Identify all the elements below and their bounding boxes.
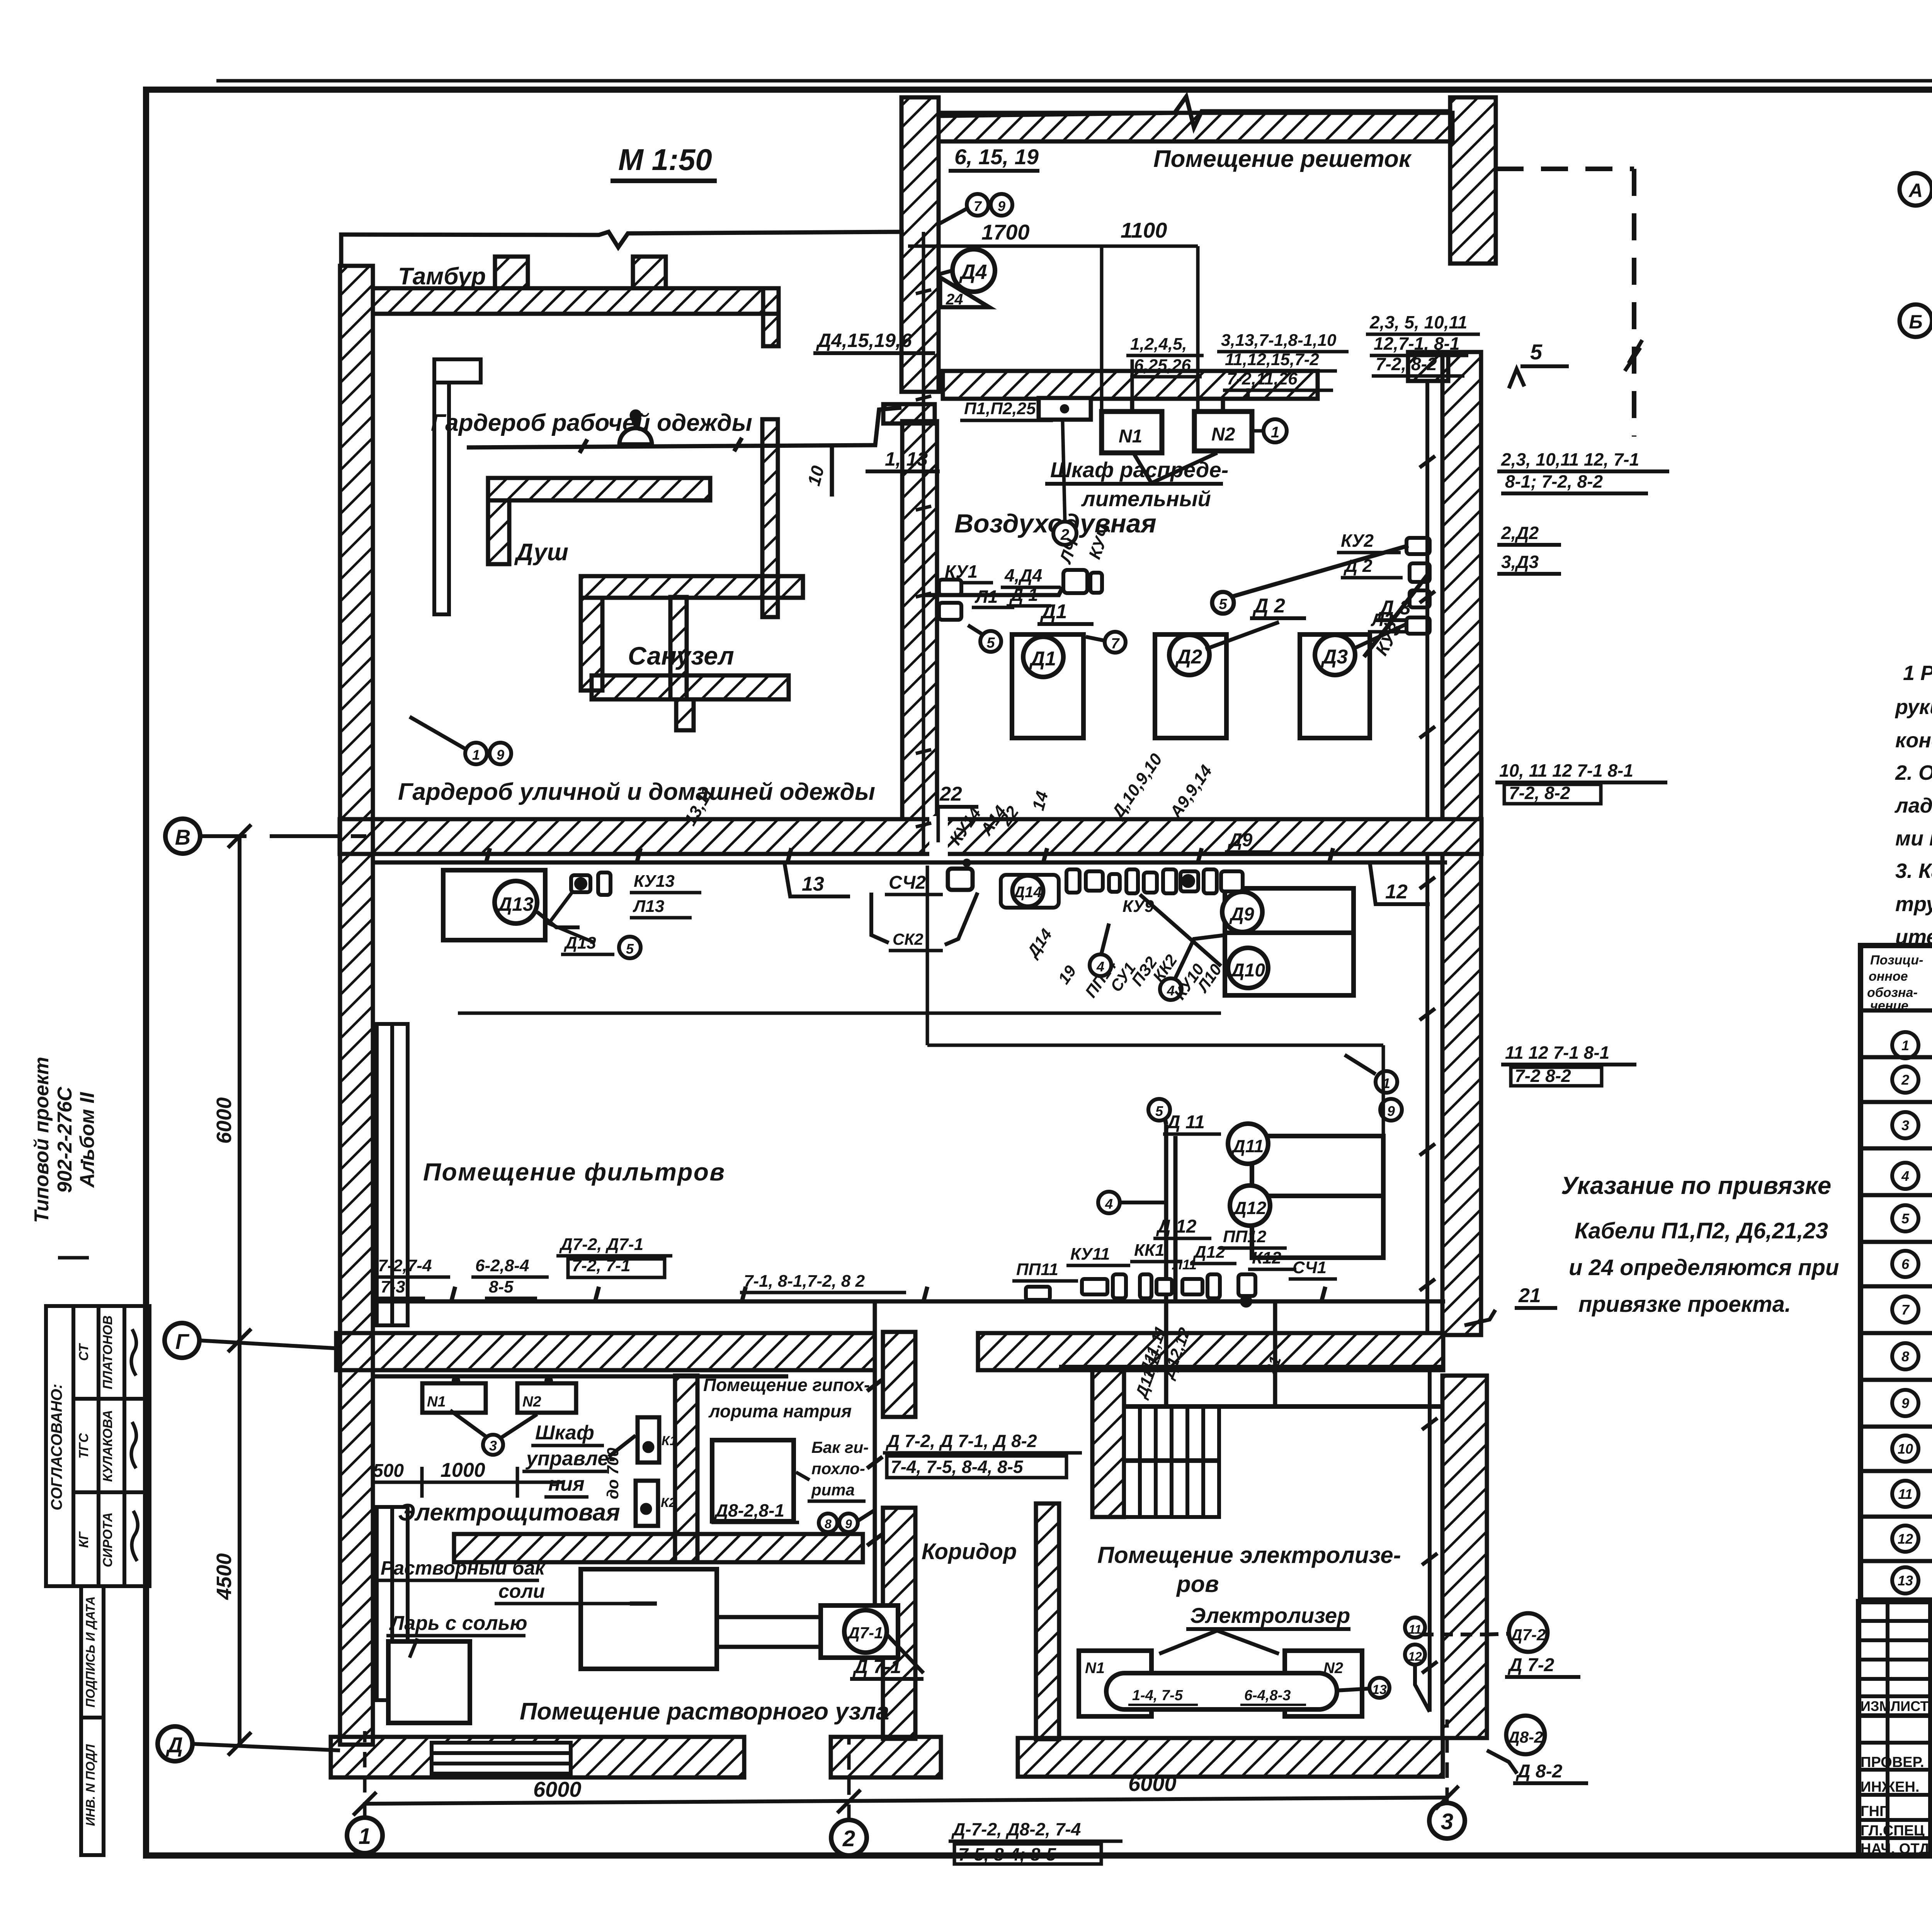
svg-text:12: 12 [1385,881,1408,903]
wall: left outer wall [340,266,373,1745]
title header row izm list [1861,1698,1932,1714]
svg-text:6-2,8-4: 6-2,8-4 [475,1256,529,1275]
sp axis circle A [1900,173,1932,206]
svg-text:1: 1 [1271,424,1279,441]
distribution cabinet N1 [1102,412,1162,453]
svg-text:8: 8 [825,1517,832,1531]
cable: axis G horizontal run [377,1287,1445,1301]
wall: wc mid stub [676,699,694,730]
instruction text ukazanie [1561,1172,1839,1317]
dashed recall line top right [1497,169,1634,437]
label 1,13 [866,448,940,471]
svg-text:ГЛ.СПЕЦ: ГЛ.СПЕЦ [1861,1823,1925,1839]
wall: corridor left wall lower [883,1508,915,1739]
svg-text:Д12: Д12 [1232,1198,1267,1218]
svg-text:конструкций - типовой проект: конструкций - типовой проект А 72 А. [1895,729,1932,752]
svg-text:ИЗМ: ИЗМ [1861,1698,1891,1714]
flag D8-2 right [1487,1716,1588,1783]
leader circle 3 [450,1410,537,1455]
svg-text:1: 1 [1901,1037,1909,1053]
axis circle D [158,1726,340,1761]
svg-text:КУЛАКОВА: КУЛАКОВА [100,1410,115,1482]
svg-text:7-1, 8-1,7-2, 8 2: 7-1, 8-1,7-2, 8 2 [744,1272,865,1291]
motor D10 [1228,948,1268,988]
axis circle G [165,1323,340,1358]
specification table grid [1861,946,1932,1600]
svg-text:НАЧ. ОТД: НАЧ. ОТД [1861,1841,1930,1857]
svg-text:ТГС: ТГС [77,1433,91,1459]
leader circle 5 above D11 [1148,1099,1170,1121]
scale label M 1:50 [611,143,717,181]
notes paragraph [1894,662,1932,949]
svg-text:онное: онное [1869,969,1908,984]
labels above devices [1012,1227,1337,1300]
svg-text:Л13: Л13 [633,897,664,916]
svg-text:КУ9: КУ9 [1122,897,1154,916]
svg-text:2,3, 5, 10,11: 2,3, 5, 10,11 [1369,312,1467,332]
title signature rows [1861,1754,1932,1857]
svg-text:2,Д2: 2,Д2 [1501,523,1539,543]
svg-text:Гардероб уличной и домашней: Гардероб уличной и домашней одежды [398,779,875,805]
svg-text:12: 12 [1898,1531,1913,1547]
flag D7-2 right [1422,1613,1580,1677]
svg-text:7: 7 [974,198,982,214]
svg-text:11: 11 [1408,1622,1421,1636]
svg-text:2: 2 [842,1826,855,1851]
svg-text:3,13,7-1,8-1,10: 3,13,7-1,8-1,10 [1221,331,1337,350]
wall: shower left wall [488,500,509,564]
svg-text:Кабели П1,П2, Д6,21,23: Кабели П1,П2, Д6,21,23 [1575,1218,1828,1243]
title block grid [1859,1602,1932,1855]
connecting pipe boxes rastvorny [630,1604,821,1647]
wall: wc mid vertical [670,597,687,699]
svg-text:N1: N1 [1085,1660,1105,1677]
svg-text:10: 10 [1898,1441,1913,1457]
trunk cable along right wall [1420,381,1437,1712]
svg-text:Б: Б [1909,311,1922,333]
svg-text:6, 15, 19: 6, 15, 19 [954,145,1039,169]
label block under axis2 [949,1819,1122,1864]
motor D11 [1228,1124,1268,1164]
svg-text:Д9: Д9 [1227,830,1253,850]
svg-text:Д 11: Д 11 [1165,1112,1205,1133]
axis circle 1 [347,1731,383,1853]
label D4,15,19,6 [813,330,935,353]
motor D3 [1315,635,1355,675]
svg-text:Позици-: Позици- [1870,953,1923,968]
svg-text:Д3: Д3 [1321,646,1348,668]
svg-text:К1: К1 [662,1434,677,1448]
dim 500 1000 [371,1467,564,1498]
svg-text:Д 8-2: Д 8-2 [1515,1761,1563,1782]
svg-text:9: 9 [998,198,1005,214]
multiline cable group labels above band [1126,331,1349,398]
svg-text:ИНЖЕН.: ИНЖЕН. [1861,1779,1919,1795]
labels under electrolyzer [1128,1687,1306,1705]
svg-text:М 1:50: М 1:50 [618,143,712,177]
wall: electrolysis room left wall [1092,1367,1124,1517]
wall pilaster 1 [495,257,528,288]
svg-text:21: 21 [1518,1284,1541,1307]
svg-text:КК1: КК1 [1134,1241,1165,1260]
motor D14 [1012,876,1043,906]
svg-text:СИРОТА: СИРОТА [100,1512,115,1567]
svg-text:ния: ния [548,1473,585,1495]
svg-text:N2: N2 [522,1394,541,1410]
svg-text:8: 8 [1901,1349,1909,1364]
svg-text:1000: 1000 [440,1459,485,1481]
svg-text:10, 11 12 7-1 8-1: 10, 11 12 7-1 8-1 [1499,760,1633,781]
svg-text:Д 7-2, Д 7-1, Д 8-2: Д 7-2, Д 7-1, Д 8-2 [885,1431,1037,1451]
control cabinet boxes [636,1417,659,1526]
right side label stack top [1366,312,1480,376]
svg-text:СОГЛАСОВАНО:: СОГЛАСОВАНО: [48,1384,65,1510]
svg-text:9: 9 [497,747,504,763]
electrolysis room upper boundary [1059,1367,1442,1406]
svg-text:Альбом II: Альбом II [76,1092,99,1188]
label 22 [936,783,978,842]
svg-text:ПЛАТОНОВ: ПЛАТОНОВ [100,1315,115,1389]
svg-text:ГНП: ГНП [1861,1803,1890,1820]
cable riser to D7-1 [867,1301,883,1605]
wall: shower top wall [488,478,710,500]
wall: bottom wall of electrolysis room [1018,1738,1443,1777]
svg-text:Гардероб рабочей одежды: Гардероб рабочей одежды [431,410,752,436]
label 4,D4 [1001,565,1061,587]
motor D1 [1023,637,1063,677]
electro room cabinet N2 [517,1376,576,1413]
salt chest box [388,1641,470,1723]
svg-text:Д1: Д1 [1029,648,1056,670]
wall: axis G wall right part [978,1333,1443,1370]
slanted labels D11 D12 in corridor [1135,1324,1284,1382]
svg-text:ИНВ. N ПОДЛ: ИНВ. N ПОДЛ [83,1744,97,1826]
svg-text:Помещение фильтров: Помещение фильтров [423,1158,724,1186]
wall: top wall of grid room [939,113,1452,141]
wall: right wall of grid room [1450,97,1496,264]
svg-text:Коридор: Коридор [922,1539,1017,1564]
devices on blower cable [1063,570,1102,593]
cable ticks on riser [916,290,931,827]
svg-text:Электролизер: Электролизер [1190,1603,1350,1628]
equipment boxes blower room [1012,634,1370,738]
devices on cable near electro [1082,1274,1255,1306]
svg-text:Д13: Д13 [497,893,534,915]
svg-text:Д8-2,8-1: Д8-2,8-1 [714,1500,784,1520]
svg-text:Д4: Д4 [959,260,987,284]
wall: right wall middle [1442,854,1481,1335]
svg-text:Д12: Д12 [1192,1243,1225,1262]
wall: el room lower wall [454,1534,863,1562]
wall: bottom wall left [331,1737,744,1777]
salt tank label [377,1557,630,1604]
label 13 on cable [784,862,850,896]
long diagonal cable to D3 [1212,546,1430,657]
svg-text:П1,П2,25: П1,П2,25 [964,399,1036,418]
svg-text:ПП12: ПП12 [1223,1227,1267,1246]
leader circle 4 near D12 [1098,1192,1165,1213]
electrolyzer bar [1106,1673,1337,1709]
leader circles pair mid right [1345,1055,1402,1121]
wall: right wall of blower room [1442,352,1481,819]
svg-text:6000: 6000 [533,1777,582,1801]
svg-text:лительный: лительный [1081,486,1211,511]
svg-text:1: 1 [472,747,480,763]
svg-text:Электрощитовая: Электрощитовая [398,1499,620,1526]
svg-text:7-2,7-4: 7-2,7-4 [378,1256,432,1275]
svg-text:трубы, заложенные в полу, и: трубы, заложенные в полу, и отверстия см… [1895,893,1932,916]
cable risers into electrolysis room [1166,1301,1275,1406]
svg-text:Бак ги-: Бак ги- [811,1438,869,1456]
svg-text:Д 7-1: Д 7-1 [852,1656,901,1677]
svg-text:8-5: 8-5 [489,1277,514,1296]
svg-text:7: 7 [1901,1302,1910,1318]
svg-text:Помещение решеток: Помещение решеток [1153,146,1412,172]
svg-text:6,25,26: 6,25,26 [1134,356,1191,375]
wall: central vertical wall lower part [902,421,937,819]
svg-text:до 700: до 700 [604,1448,622,1499]
svg-text:13: 13 [802,873,824,895]
lower filter room cable riser [1163,1109,1175,1301]
svg-text:4,Д4: 4,Д4 [1004,565,1042,585]
wall pilaster 2 [633,257,666,288]
wall: wc top wall [581,576,803,598]
table position circles [1892,1032,1918,1594]
svg-text:похло-: похло- [811,1459,865,1478]
leader circle 7 [1086,632,1126,653]
svg-text:4: 4 [1901,1168,1909,1184]
wall: block at cable jog [883,404,935,423]
left margin project name rotated [31,1057,99,1258]
svg-text:22: 22 [939,783,962,805]
slanted labels D11 D12 K1 below G wall [1131,1347,1166,1401]
svg-text:2. Отверстия в стеах и в пол: 2. Отверстия в стеах и в полу в помещени… [1895,761,1932,784]
label group D7-2 D7-1 D8-2 corridor [883,1431,1082,1478]
motor D9 [1222,892,1262,932]
svg-text:ми материалами.: ми материалами. [1895,827,1932,850]
svg-text:7-4, 7-5, 8-4, 8-5: 7-4, 7-5, 8-4, 8-5 [891,1457,1024,1477]
leader circle 5 [968,625,1001,652]
svg-text:Д14: Д14 [1012,884,1042,901]
leader circles pair 11 12 right wall [1405,1617,1430,1712]
svg-text:5: 5 [1901,1211,1910,1226]
svg-text:6000: 6000 [1128,1771,1177,1796]
svg-text:рита: рита [811,1481,855,1499]
wall: wc left wall [581,598,602,690]
distribution cabinet N2 [1194,412,1252,451]
motor D7-1 [821,1605,923,1679]
svg-text:Г: Г [175,1329,190,1354]
svg-text:N1: N1 [427,1394,446,1410]
svg-text:24: 24 [946,291,963,308]
stairs [1124,1406,1219,1517]
svg-text:12,7-1, 8-1: 12,7-1, 8-1 [1374,333,1459,354]
break mark on dashed line [1625,340,1642,371]
electrolyzer N1 box [1079,1651,1151,1716]
svg-text:Д10: Д10 [1230,960,1265,981]
svg-text:Д 2: Д 2 [1252,595,1285,617]
svg-text:обозна-: обозна- [1867,985,1918,1000]
wall: corridor right wall [1036,1503,1059,1739]
svg-text:5: 5 [626,941,634,957]
flag D4 [939,249,995,308]
device boxes on wall left of blower [939,580,961,620]
svg-text:1 Рабочие чертежи прокладки: 1 Рабочие чертежи прокладки кабелей откр… [1903,662,1932,685]
svg-text:13: 13 [1898,1573,1913,1588]
svg-text:Д4,15,19,6: Д4,15,19,6 [816,330,912,351]
svg-text:КГ: КГ [77,1531,91,1548]
svg-text:Санузел: Санузел [628,641,734,670]
svg-text:Шкаф: Шкаф [535,1422,594,1444]
svg-text:лорита натрия: лорита натрия [708,1401,852,1421]
wall: central vertical wall [901,97,939,392]
electrolyzer N2 box [1285,1651,1362,1716]
svg-text:ПП11: ПП11 [1016,1260,1058,1279]
svg-text:5: 5 [1155,1103,1163,1119]
electrolyzer label [1159,1603,1350,1654]
svg-text:11 12 7-1 8-1: 11 12 7-1 8-1 [1505,1043,1609,1063]
svg-text:Д9: Д9 [1229,904,1254,925]
wall: window strips on bottom wall [432,1743,571,1774]
svg-text:3: 3 [489,1438,497,1454]
svg-text:3. Кабельный канал под распр: 3. Кабельный канал под распределительным… [1895,859,1932,883]
table header texts [1867,953,1932,1013]
svg-text:Д7-2, Д7-1: Д7-2, Д7-1 [559,1235,643,1254]
wall: wc right wall [762,419,778,617]
svg-text:Д7-2: Д7-2 [1509,1626,1546,1644]
svg-text:СК2: СК2 [893,930,923,948]
svg-text:13: 13 [1372,1682,1387,1697]
building outline top thin line with break [341,97,1450,267]
bottom dim line [353,1786,1459,1815]
slanted labels below axis B cable [871,893,1225,1003]
svg-text:КУ13: КУ13 [634,872,675,891]
wall: axis B wall [340,819,1481,854]
svg-text:ладки кабелей и труб должны: ладки кабелей и труб должны быть плотно … [1894,794,1932,817]
svg-text:Растворный бак: Растворный бак [381,1557,546,1579]
svg-text:К2: К2 [661,1495,676,1510]
svg-text:ПРОВЕР.: ПРОВЕР. [1861,1754,1924,1770]
svg-text:Душ: Душ [514,539,568,566]
wall: interior strip near left wall top [377,359,481,1700]
svg-text:7-5, 8-4; 8-5: 7-5, 8-4; 8-5 [958,1844,1057,1864]
svg-text:500: 500 [373,1461,404,1481]
wall: band below grid room [943,371,1318,399]
svg-text:2,3, 10,11 12, 7-1: 2,3, 10,11 12, 7-1 [1501,449,1639,469]
leader circles pair 8 9 hypo [819,1510,875,1532]
svg-text:1700: 1700 [981,220,1030,244]
svg-text:4500: 4500 [213,1553,236,1600]
leader circles 4 9 top [939,194,1012,224]
cable below G wall electro room [375,1376,788,1383]
cable drop from devices to D9 [1090,895,1221,976]
sp axis circle B [1900,304,1932,337]
svg-text:А: А [1908,180,1923,201]
leader circle 2 under N1 [1053,421,1077,545]
svg-text:Д11: Д11 [1231,1136,1264,1156]
wall: bottom wall mid [831,1737,941,1777]
boxes D11 D12 [1252,1136,1383,1258]
svg-text:1: 1 [359,1824,371,1849]
labels above axis G cable left [374,1235,906,1298]
svg-text:Д 7-2: Д 7-2 [1507,1655,1554,1675]
label D12 [1153,1216,1211,1238]
svg-text:9: 9 [1387,1103,1395,1119]
wall stub at passage [1408,352,1448,381]
podpis data strip [81,1586,104,1855]
devices row on axis B cable [1001,869,1243,908]
svg-text:6000: 6000 [213,1097,236,1144]
label group right 2,3,10,11 [1497,449,1669,493]
wall: wc bottom wall [592,675,789,699]
hypochlorite tank box [711,1440,799,1522]
svg-text:В: В [175,825,190,849]
vertical dim line left [228,825,251,1755]
electro room cabinet N1 [422,1376,486,1413]
svg-text:4: 4 [1105,1196,1113,1212]
svg-text:Д: Д [166,1733,183,1757]
svg-text:1, 13: 1, 13 [885,448,928,470]
leader circle 4 filters [1160,935,1225,1000]
svg-text:Д2: Д2 [1175,646,1202,668]
wall: right wall of electrolysis room [1442,1376,1487,1738]
svg-text:Д7-1: Д7-1 [847,1624,883,1642]
svg-text:ПОДПИСЬ И ДАТА: ПОДПИСЬ И ДАТА [83,1596,97,1708]
svg-text:Д1: Д1 [1040,600,1067,623]
svg-text:902-2-276С: 902-2-276С [54,1086,76,1193]
cabinet label line1 [1045,453,1228,511]
svg-text:рукциях смотри типовой проект: рукциях смотри типовой проект А88А, узлы… [1895,696,1932,719]
svg-text:Д8-2: Д8-2 [1507,1728,1543,1746]
svg-text:Типовой проект: Типовой проект [31,1057,53,1223]
shower symbol [619,412,652,444]
cable: axis B horizontal run [373,848,1447,862]
svg-text:Тамбур: Тамбур [398,263,486,290]
axis circle 2 [831,1735,867,1855]
svg-text:11: 11 [1898,1486,1912,1502]
svg-text:3: 3 [1901,1117,1909,1133]
leader circles pair 8 9 filters [410,717,511,764]
svg-text:6-4,8-3: 6-4,8-3 [1244,1687,1291,1704]
svg-text:1,2,4,5,: 1,2,4,5, [1130,335,1187,354]
label 6,15,19 [949,145,1039,171]
wall: axis G wall left part [336,1333,875,1370]
axis circle B [165,819,366,854]
svg-text:Д-7-2, Д8-2, 7-4: Д-7-2, Д8-2, 7-4 [951,1819,1081,1839]
leader circle 13 electrolyzer [1337,1678,1389,1698]
svg-text:5: 5 [986,635,995,651]
svg-text:КУ11: КУ11 [1070,1245,1110,1264]
motor D2 [1169,635,1209,675]
svg-text:Помещение растворного узла: Помещение растворного узла [520,1698,889,1725]
label 11,12 lower right [1501,1043,1636,1086]
dim 1700 1100 [908,232,1198,856]
svg-text:чение: чение [1870,998,1908,1013]
leader circle 1 right of N2 [1252,419,1287,442]
svg-text:4: 4 [1096,959,1104,975]
slanted labels above axis B cable [946,750,1271,852]
svg-text:К12: К12 [1252,1248,1282,1267]
svg-text:12: 12 [1408,1650,1422,1663]
wall: corridor left wall upper [883,1332,915,1417]
svg-text:Помещение электролизе-: Помещение электролизе- [1097,1542,1401,1568]
filter room boxes right [1225,888,1354,995]
cable: tambour horizontal run [467,408,901,497]
device box P1P2 [960,398,1091,420]
wall: tambour top wall [373,288,779,314]
label 5 with arrow [1509,340,1569,388]
control cabinet label [522,1422,636,1497]
